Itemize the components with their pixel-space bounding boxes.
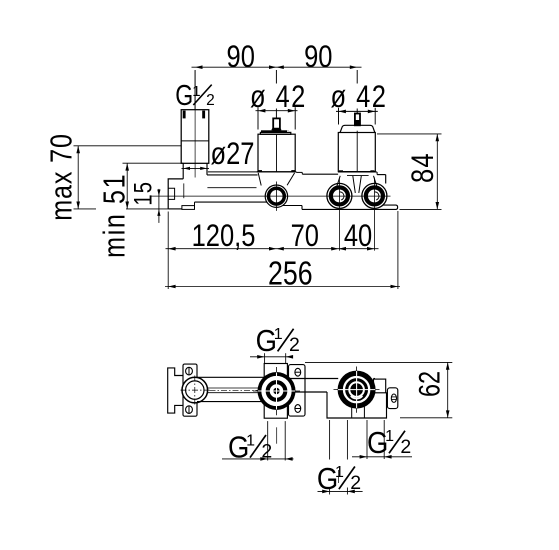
cold boss right diagonal — [374, 176, 378, 188]
svg-text:G: G — [175, 81, 193, 112]
bar top edge right of pipe — [208, 171, 258, 173]
right cartridge circle plan — [338, 371, 376, 409]
chain dimension line 120.5 70 40 — [166, 248, 379, 250]
extension line right cartridge center — [356, 70, 358, 84]
bottom edge right section — [302, 208, 396, 210]
hot boss right diagonal — [353, 176, 356, 193]
dimension 15 line — [158, 189, 160, 223]
dimension max70 line — [77, 146, 79, 209]
right end plate — [374, 379, 386, 393]
right bracket screw — [391, 394, 396, 402]
body left edge — [168, 179, 183, 209]
middle boss plan — [264, 364, 287, 419]
svg-text:min 51: min 51 — [96, 173, 131, 258]
middle boss right diagonal — [287, 173, 295, 185]
svg-text:70: 70 — [291, 219, 319, 254]
dimension 62 line — [447, 362, 449, 417]
right circle crosshair — [334, 389, 380, 391]
bar bottom edge plan — [289, 391, 328, 393]
bar inner shelf line — [207, 187, 256, 189]
svg-text:2: 2 — [206, 92, 215, 109]
svg-text:120,5: 120,5 — [192, 219, 256, 254]
svg-text:90: 90 — [304, 40, 332, 75]
svg-text:ø 42: ø 42 — [250, 79, 307, 114]
dimension min51 line — [126, 163, 128, 209]
shared bottom extension — [74, 208, 97, 210]
bottom edge left section — [168, 208, 182, 210]
G1/2 bottom-center composite — [317, 463, 361, 497]
svg-text:ø27: ø27 — [211, 136, 255, 171]
svg-text:max 70: max 70 — [43, 133, 78, 221]
dimension max70 top extension — [74, 145, 182, 147]
down ports block — [327, 392, 387, 418]
tube inner bore walls — [207, 387, 264, 389]
cold port G1/2 extension lines — [366, 420, 368, 459]
dimension 62 bottom extension — [400, 417, 452, 419]
svg-text:2: 2 — [400, 436, 411, 458]
svg-text:15: 15 — [128, 181, 157, 206]
dimension 84 bottom extension — [400, 208, 442, 210]
right flange — [383, 205, 398, 209]
tube centerline — [210, 389, 264, 391]
cold boss left diagonal — [359, 176, 362, 193]
svg-text:1: 1 — [385, 428, 394, 445]
svg-text:2: 2 — [289, 334, 300, 356]
hot port G1/2 extension lines — [329, 420, 331, 460]
bar top step right of middle cartridge — [296, 171, 302, 173]
middle plate plan — [289, 365, 306, 417]
hot boss left diagonal — [336, 176, 340, 188]
right cartridge body — [338, 133, 375, 172]
tube top wall — [197, 376, 264, 378]
middle port vertical centerline — [275, 182, 277, 211]
pipe neck dia 27 — [182, 163, 184, 179]
extension line middle cartridge center — [275, 70, 277, 84]
right bracket — [387, 388, 397, 409]
dia 42 dimension middle — [256, 110, 298, 112]
plan top edge extension — [305, 361, 452, 363]
G1/2 label composite — [175, 81, 214, 112]
spout port crosshair — [181, 389, 210, 391]
hot port circle — [327, 183, 352, 208]
dia 27 dimension — [182, 167, 210, 169]
G1/2 plan top composite — [256, 325, 300, 359]
thread mark right — [202, 111, 205, 119]
bar top edge right of right cartridge — [376, 172, 378, 175]
svg-text:62: 62 — [413, 371, 446, 397]
pipe centerline — [194, 71, 196, 178]
middle boss left diagonal — [258, 173, 261, 186]
ledge right of middle port — [283, 205, 302, 207]
wall bracket left — [168, 368, 183, 413]
middle cartridge body — [258, 134, 295, 172]
bottom tab — [182, 206, 195, 210]
extension line left edge down — [167, 212, 169, 290]
dia 42 dimension right — [336, 110, 378, 112]
middle cartridge cap — [261, 130, 289, 132]
right cartridge base line — [338, 171, 377, 173]
back port centerline tick — [183, 183, 185, 198]
tube bottom wall — [197, 401, 264, 403]
middle cartridge base line — [257, 171, 297, 173]
extension line right end down — [397, 211, 399, 289]
dimension 84 top extension — [377, 133, 442, 135]
right cartridge stem — [355, 114, 360, 126]
svg-text:256: 256 — [268, 256, 313, 292]
svg-text:1: 1 — [274, 326, 283, 343]
main horizontal centerline — [151, 195, 391, 197]
extension line pipe center — [194, 70, 196, 110]
left screw top — [186, 367, 193, 375]
spout pipe G1/2 thread body — [181, 110, 209, 164]
middle port G1/2 extension lines — [267, 421, 269, 460]
middle screw bottom — [295, 405, 301, 413]
bar top edge between cartridges — [302, 173, 338, 175]
G1/2 bottom-right composite — [367, 427, 411, 461]
bottom step to mid section — [194, 202, 196, 206]
bottom edge mid section — [195, 201, 267, 203]
middle screw top — [295, 368, 301, 376]
right cartridge dome — [340, 125, 375, 132]
G1/2 bottom-left dimension — [222, 458, 294, 460]
left screw bottom — [186, 406, 193, 414]
svg-text:90: 90 — [227, 40, 255, 75]
middle circle crosshair — [253, 390, 300, 392]
svg-text:ø 42: ø 42 — [331, 80, 388, 115]
cold port circle — [362, 183, 387, 208]
dimension min51 top extension — [123, 162, 184, 164]
G1/2 bottom-center dimension — [318, 490, 363, 492]
dimension 84 line — [436, 134, 438, 210]
V notch shelf under right cartridge — [347, 175, 369, 177]
svg-text:1: 1 — [246, 432, 255, 449]
cold port vertical centerline — [373, 178, 375, 251]
left mounting plate — [183, 364, 197, 416]
middle cartridge stem — [273, 118, 280, 130]
G1/2 plan top dimension — [250, 356, 293, 358]
bar right segment top — [374, 378, 376, 380]
G1/2 bottom-left composite — [228, 431, 272, 465]
left fixing tab — [168, 188, 174, 199]
thread mark left — [183, 111, 186, 119]
hot port vertical centerline — [338, 178, 340, 251]
svg-text:1: 1 — [335, 464, 344, 481]
dimension 90-90 line — [192, 66, 362, 68]
G1/2 bottom-right dimension — [352, 456, 412, 458]
svg-text:84: 84 — [406, 152, 441, 183]
spout port circle plan — [182, 377, 208, 403]
dimension 256 line — [165, 286, 400, 288]
middle port circle — [265, 185, 287, 207]
svg-text:40: 40 — [344, 219, 372, 254]
bar top edge plan — [289, 378, 339, 380]
middle cartridge circle plan — [258, 372, 296, 410]
